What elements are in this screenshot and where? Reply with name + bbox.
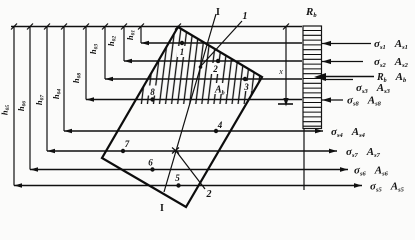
svg-text:h02: h02 xyxy=(106,36,118,46)
tick h07 xyxy=(44,24,50,30)
arrowhead at h05 corner xyxy=(14,183,22,187)
svg-text:5: 5 xyxy=(175,173,180,183)
strip left edge extension xyxy=(303,129,305,191)
svg-text:σs2As2: σs2As2 xyxy=(374,56,409,69)
rebar dot 1 xyxy=(180,41,184,45)
rebar dot 2 xyxy=(216,59,220,63)
hatch ticks below boundary xyxy=(138,100,247,105)
svg-text:2: 2 xyxy=(212,64,218,74)
svg-text:x: x xyxy=(278,67,283,76)
force arrow sigma-s3 xyxy=(323,79,353,81)
arrowhead sigma-s6 xyxy=(340,167,348,172)
wire sigma-s7 line xyxy=(47,150,337,152)
svg-text:8: 8 xyxy=(150,87,155,97)
svg-text:h08: h08 xyxy=(71,73,83,83)
arrowhead at h07 corner xyxy=(47,149,55,153)
svg-text:4: 4 xyxy=(217,120,223,130)
arrowhead at h04 corner xyxy=(64,129,72,133)
strip horizontal hatch xyxy=(304,31,322,127)
svg-text:σs5As5: σs5As5 xyxy=(370,181,405,194)
tick h05 xyxy=(11,24,17,30)
arrowhead at h08 corner xyxy=(86,97,94,101)
top datum line xyxy=(11,26,302,28)
svg-text:2: 2 xyxy=(206,189,212,200)
arrowhead at h02 corner xyxy=(124,59,132,63)
dimension vertical h05 xyxy=(13,27,15,186)
x-dim bottom arrowhead xyxy=(283,98,288,107)
wire sigma-s8 / compression boundary line xyxy=(86,99,302,101)
centroid cross mark xyxy=(172,148,179,154)
tick h01 xyxy=(138,24,144,30)
svg-text:σs4As4: σs4As4 xyxy=(331,126,366,139)
dimension vertical h08 xyxy=(85,27,87,100)
force arrow sigma-s8 xyxy=(322,99,343,101)
svg-text:I: I xyxy=(160,203,164,214)
rebar dot 5 xyxy=(176,183,180,187)
tick apex xyxy=(175,24,181,30)
svg-text:h03: h03 xyxy=(88,44,100,54)
concrete section outline (rotated rectangle) xyxy=(102,27,262,207)
svg-text:3: 3 xyxy=(243,82,249,92)
rebar dot 7 xyxy=(121,149,125,153)
pointer line 2 xyxy=(176,151,205,189)
dimension vertical h07 xyxy=(46,27,48,152)
section line I-I xyxy=(164,14,216,192)
force arrow Rb Ab (resultant) xyxy=(318,76,374,78)
svg-text:1: 1 xyxy=(180,47,185,57)
tick h06 xyxy=(27,24,33,30)
arrowhead sigma-s4 xyxy=(315,129,323,134)
arrowhead sigma-s5 xyxy=(354,183,362,188)
svg-text:σs6As6: σs6As6 xyxy=(354,165,389,178)
dimension vertical h04 xyxy=(63,27,65,132)
force arrow sigma-s2 xyxy=(322,61,363,63)
pointer line 1 xyxy=(201,21,243,67)
svg-text:7: 7 xyxy=(125,139,130,149)
wire sigma-s4 line xyxy=(64,130,323,132)
stress block strip Rb xyxy=(303,26,322,129)
svg-text:σs7As7: σs7As7 xyxy=(346,146,381,159)
arrowhead sigma-s7 xyxy=(329,149,337,154)
tick x-dim top xyxy=(283,24,289,30)
svg-text:6: 6 xyxy=(148,158,153,168)
x-dim bottom dash xyxy=(278,103,293,105)
svg-text:σs8As8: σs8As8 xyxy=(347,95,382,108)
label Ab xyxy=(213,83,227,94)
x-dimension line xyxy=(285,27,287,104)
svg-text:σs1As1: σs1As1 xyxy=(374,38,408,51)
tick h02 xyxy=(121,24,127,30)
arrowhead at h01 corner xyxy=(141,41,149,45)
rebar dot 3 xyxy=(243,77,247,81)
svg-text:h01: h01 xyxy=(125,30,137,40)
tick h04 xyxy=(61,24,67,30)
rebar dot 4 xyxy=(214,129,218,133)
arrowhead at h03 corner xyxy=(105,77,113,81)
wire sigma-s1 line xyxy=(141,42,302,44)
svg-text:h05: h05 xyxy=(0,105,11,115)
svg-text:h04: h04 xyxy=(51,89,63,99)
svg-text:h06: h06 xyxy=(16,101,28,111)
dimension vertical h01 xyxy=(140,27,142,44)
tick h08 xyxy=(83,24,89,30)
rebar dot 6 xyxy=(150,167,154,171)
wire sigma-s3 line xyxy=(105,78,302,80)
svg-text:h07: h07 xyxy=(34,95,46,105)
tick h03 xyxy=(102,24,108,30)
dimension vertical h06 xyxy=(29,27,31,170)
wire sigma-s5 line xyxy=(14,185,362,187)
dimension vertical h03 xyxy=(104,27,106,80)
arrowhead at h06 corner xyxy=(30,167,38,171)
hatched compression zone Ab xyxy=(136,27,262,100)
dot at end of pointer 1 xyxy=(199,65,203,69)
dimension vertical h02 xyxy=(123,27,125,62)
svg-text:1: 1 xyxy=(243,11,248,22)
wire sigma-s6 line xyxy=(30,169,348,171)
wire sigma-s2 line xyxy=(124,60,302,62)
svg-text:I: I xyxy=(216,7,220,18)
svg-text:Rb: Rb xyxy=(305,6,317,19)
rebar dot 8 xyxy=(150,97,154,101)
force arrow sigma-s1 xyxy=(322,43,371,45)
